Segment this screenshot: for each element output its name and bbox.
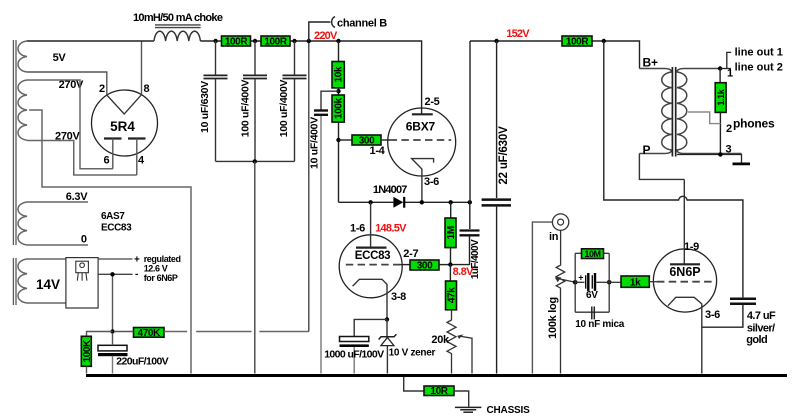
node 10k feed <box>336 39 340 43</box>
svg-text:-: - <box>135 269 138 280</box>
6N6P plate lead <box>683 179 685 264</box>
svg-text:phones: phones <box>733 117 775 131</box>
wire 10R to chassis ground <box>454 391 469 407</box>
node 100R output junction <box>602 39 606 43</box>
output tube 6N6P envelope <box>653 249 716 312</box>
node channel B tap <box>307 39 311 43</box>
svg-text:CHASSIS: CHASSIS <box>487 405 531 416</box>
wire jack sleeve to ground bus <box>532 222 552 373</box>
node filter bus center <box>253 159 257 163</box>
resistor 1k <box>621 276 649 287</box>
input jack inner circle <box>558 219 564 225</box>
svg-text:1.1k: 1.1k <box>716 88 726 105</box>
svg-text:ECC83: ECC83 <box>355 250 391 262</box>
node cap2 tap <box>253 39 257 43</box>
svg-text:152V: 152V <box>506 28 530 40</box>
resistor 47k top lead <box>449 265 451 281</box>
capacitor 10uF/400V bottom lead to bus <box>320 116 322 374</box>
wire riser x=309 from rail junction down to 470K wire <box>308 41 310 332</box>
svg-text:1-6: 1-6 <box>350 223 365 235</box>
resistor 1M <box>445 218 456 248</box>
capacitor 1uF/400V bottom lead <box>451 236 470 264</box>
svg-text:8.8V: 8.8V <box>453 266 474 278</box>
svg-text:100k log: 100k log <box>547 297 559 339</box>
svg-text:100 uF/400V: 100 uF/400V <box>278 80 290 138</box>
resistor 47k <box>446 281 457 310</box>
connector arc channel B <box>332 17 335 28</box>
wire phones tap from secondary <box>688 112 720 124</box>
svg-text:channel B: channel B <box>337 18 387 30</box>
svg-text:+: + <box>578 273 583 283</box>
wire 6.3V top lead <box>27 201 88 203</box>
wire 470K right lead with crossing gaps to 220V rail riser <box>164 331 187 333</box>
svg-text:1k: 1k <box>630 278 641 289</box>
ECC83 plate lead <box>370 202 372 247</box>
capacitor C2 bottom lead <box>254 79 256 162</box>
wire 10k column from rail <box>338 41 340 62</box>
zener diode bar with ticks <box>379 334 397 339</box>
power transformer T1 core (upper) <box>13 40 16 245</box>
wire regulator + output stub <box>98 258 132 260</box>
capacitor 1000uF bottom lead <box>353 347 355 374</box>
6N6P plate bar <box>670 263 700 265</box>
ECC83 cathode <box>353 279 387 319</box>
rectifier tube 5R4 envelope <box>92 90 158 156</box>
zener diode 10V lead <box>386 319 388 336</box>
potentiometer 20k body <box>447 310 456 374</box>
choke L1 10mH/50mA winding <box>154 31 200 41</box>
regulator U1 TO-220 symbol <box>76 261 89 281</box>
capacitor 1000uF/100V top plate <box>340 337 369 342</box>
wire filter cap bottom bus <box>216 160 295 162</box>
svg-text:regulated: regulated <box>144 254 181 264</box>
wire battery node to 1k <box>609 281 621 283</box>
node rail riser junction <box>468 200 472 204</box>
svg-text:6AS7: 6AS7 <box>101 211 125 222</box>
wire 5V bottom lead to pin 2 <box>27 72 107 95</box>
resistor 100K <box>81 336 91 366</box>
wire 300 to 6BX7 grid <box>381 139 390 141</box>
capacitor C3 bottom lead <box>294 79 296 162</box>
resistor 1.1k top lead <box>719 69 721 83</box>
resistor 10R <box>424 386 454 396</box>
wire regulator - output stub <box>98 273 132 275</box>
resistor 100R first <box>222 36 251 46</box>
capacitor C1 bottom lead <box>215 79 217 162</box>
svg-text:220uF/100V: 220uF/100V <box>116 356 168 368</box>
svg-text:5R4: 5R4 <box>110 119 135 134</box>
svg-text:in: in <box>549 231 559 243</box>
resistor 100R third <box>562 36 592 46</box>
winding 5V (T1 secondary) <box>18 41 27 72</box>
power transformer T1 core (lower 14V section) <box>13 258 16 305</box>
wire junction to 300 ohm grid stopper <box>339 139 353 141</box>
potentiometer 100k log body <box>556 230 565 373</box>
wire bus tap to 10R <box>404 375 424 391</box>
capacitor C2 100uF/400V lead <box>254 41 256 75</box>
svg-text:+: + <box>134 255 140 266</box>
capacitor 10nF mica plates <box>591 307 593 320</box>
svg-text:10mH/50 mA choke: 10mH/50 mA choke <box>133 12 223 24</box>
svg-text:5V: 5V <box>53 52 67 64</box>
wire RC network frame right <box>608 253 610 312</box>
svg-text:10 uF/400V: 10 uF/400V <box>309 117 321 169</box>
svg-text:100K: 100K <box>82 339 93 362</box>
capacitor 1000uF/100V bottom plate <box>340 344 369 347</box>
wire primary bottom P lead elbow to 6N6P plate <box>639 154 684 180</box>
wire RC network frame left <box>574 253 576 312</box>
wire 220uF leads <box>112 333 114 345</box>
resistor 1M bottom lead <box>450 248 452 265</box>
svg-text:gold: gold <box>746 334 767 346</box>
5R4 filament V <box>107 95 142 114</box>
capacitor 1uF/400V top lead <box>469 202 471 229</box>
power tube 6BX7 envelope <box>388 108 456 176</box>
capacitor C2 plates <box>243 74 267 76</box>
wire 300 ohm to 8.8V node <box>439 264 451 266</box>
capacitor 1uF/400V plates <box>460 229 480 231</box>
svg-text:10 nF mica: 10 nF mica <box>575 319 624 330</box>
resistor 100k <box>332 95 344 122</box>
ground bus (thick) <box>86 374 787 377</box>
svg-text:2-7: 2-7 <box>403 248 418 260</box>
svg-text:1000 uF/100V: 1000 uF/100V <box>324 349 384 361</box>
svg-text:100R: 100R <box>264 37 287 48</box>
output transformer T2 secondary winding <box>677 69 742 154</box>
svg-text:20k: 20k <box>431 334 450 346</box>
wire 10M row <box>575 252 581 254</box>
svg-text:6V: 6V <box>586 290 598 301</box>
ECC83 plate bar <box>356 247 387 249</box>
svg-text:B+: B+ <box>643 56 658 70</box>
svg-text:6N6P: 6N6P <box>669 265 700 279</box>
5R4 plate leads pins 6 and 4 <box>112 139 114 169</box>
wire HV center tap to ground bus <box>29 110 191 374</box>
capacitor 10uF/400V plates <box>314 109 328 111</box>
svg-text:10R: 10R <box>430 386 448 397</box>
svg-text:1N4007: 1N4007 <box>373 184 407 196</box>
wire regulator minus down to 470K node <box>112 274 114 331</box>
6BX7 grid dashed <box>390 139 452 141</box>
output transformer T2 primary winding <box>639 69 671 154</box>
winding 14V (T1 secondary) <box>18 259 27 303</box>
node pin 3 junction <box>718 152 722 156</box>
potentiometer 100k wiper arrow <box>559 279 575 283</box>
winding 6.3V heater (T1 secondary) <box>18 202 27 245</box>
svg-text:220V: 220V <box>314 30 338 42</box>
wire rail segment 2 with B+ corner <box>470 41 640 69</box>
wire rail choke to 6BX7 plate drop <box>200 41 421 114</box>
capacitor C1 10uF/630V lead <box>215 41 217 75</box>
svg-text:100k: 100k <box>334 97 345 118</box>
node 300 ohm junction <box>336 138 340 142</box>
svg-text:P: P <box>643 143 651 157</box>
node ECC83 plate junction <box>368 200 372 204</box>
wire between 10k and 100k <box>338 88 340 95</box>
regulator U1 box <box>66 258 98 308</box>
svg-text:47k: 47k <box>447 287 458 303</box>
capacitor 4.7uF plates <box>730 298 756 301</box>
capacitor 22uF/630V top lead <box>496 41 498 198</box>
wire diode row <box>339 201 394 203</box>
node 1M junction <box>449 200 453 204</box>
5R4 plate bars <box>104 137 122 139</box>
6N6P cathode <box>668 297 702 373</box>
capacitor 22uF/630V bottom lead to bus <box>496 207 498 374</box>
svg-text:6BX7: 6BX7 <box>406 120 436 134</box>
node 470K junction <box>110 329 114 333</box>
svg-text:3-6: 3-6 <box>705 309 720 321</box>
node 8.8V junction <box>448 262 452 266</box>
node battery right junction <box>607 280 612 285</box>
wire ECC83 grid to 300 ohm <box>400 264 410 266</box>
svg-text:4.7 uF: 4.7 uF <box>747 310 776 322</box>
wire riser from rail to diode row <box>469 41 471 202</box>
capacitor C3 100uF/400V lead <box>294 41 296 75</box>
battery 6V plates <box>585 275 587 288</box>
svg-text:for 6N6P: for 6N6P <box>144 273 178 283</box>
ground symbol at transformer <box>733 163 751 166</box>
wire channel B tap <box>309 22 331 41</box>
capacitor 22uF/630V plates <box>482 198 511 201</box>
node choke output <box>213 39 217 43</box>
6N6P grid dashed <box>657 281 713 283</box>
svg-text:14V: 14V <box>36 277 60 292</box>
svg-text:silver/: silver/ <box>747 323 775 335</box>
diode D1 1N4007 triangle <box>393 197 403 208</box>
wire 100R junction riser down and across to 4.7uF with hop <box>604 41 743 297</box>
svg-text:10k: 10k <box>334 66 345 82</box>
resistor 470K <box>134 328 165 338</box>
svg-text:1-9: 1-9 <box>684 241 699 253</box>
wire battery stubs <box>575 281 584 283</box>
wire 100K bottom lead to bus <box>86 366 88 373</box>
wire 270V upper lead to 5R4 plate pin 6 <box>27 80 113 169</box>
zener bottom lead <box>386 346 388 374</box>
node wiper junction <box>573 280 578 285</box>
svg-text:2: 2 <box>726 123 732 135</box>
node 22uF tap <box>494 39 498 43</box>
capacitor 4.7uF bottom lead to cathode <box>702 305 743 327</box>
node ECC83 cathode junction <box>385 317 389 321</box>
resistor 300 (6BX7 grid) <box>352 135 381 145</box>
svg-text:10 uF/630V: 10 uF/630V <box>199 81 211 133</box>
wire 470K left lead <box>114 331 134 333</box>
node 10k-100k junction <box>336 89 340 93</box>
node secondary top junction <box>718 66 722 70</box>
wire 6.3V bottom lead (0V) <box>27 244 88 246</box>
svg-text:3-8: 3-8 <box>391 291 406 303</box>
wire 270V lower lead to 5R4 plate pin 4 <box>27 141 137 176</box>
node 6BX7 cathode junction <box>420 200 424 204</box>
svg-text:12.6 V: 12.6 V <box>144 264 168 274</box>
svg-text:ECC83: ECC83 <box>101 223 132 234</box>
capacitor 220uF/100V top plate <box>98 345 127 351</box>
svg-text:1: 1 <box>727 68 733 80</box>
wire 1k to 6N6P grid <box>649 281 657 283</box>
ECC83 grid dashed <box>346 264 400 266</box>
resistor 100R second <box>261 36 290 46</box>
wire main B+ rail from 5V winding to 6BX7 plate corner <box>27 40 154 42</box>
output transformer T2 core <box>671 67 673 157</box>
wire 14V bottom lead to regulator <box>27 302 66 304</box>
wire 10nF row <box>575 311 609 313</box>
svg-text:8: 8 <box>144 83 150 95</box>
svg-text:1-4: 1-4 <box>370 145 386 157</box>
ground symbol chassis <box>455 406 482 408</box>
wire 100k to 300 junction and down to diode row <box>338 122 340 202</box>
choke L1 core lines <box>155 24 201 26</box>
capacitor C3 plates <box>283 74 307 76</box>
svg-text:2: 2 <box>99 83 105 95</box>
node regulator minus junction <box>110 272 114 276</box>
resistor 1M top lead <box>450 202 452 218</box>
svg-text:0: 0 <box>81 234 87 246</box>
svg-text:1M: 1M <box>446 226 457 239</box>
svg-text:100R: 100R <box>225 37 248 48</box>
svg-text:3-6: 3-6 <box>424 176 439 188</box>
svg-text:22 uF/630V: 22 uF/630V <box>498 126 510 185</box>
svg-text:3: 3 <box>726 144 732 156</box>
svg-text:148.5V: 148.5V <box>375 223 407 235</box>
svg-text:6.3V: 6.3V <box>66 191 88 203</box>
resistor 1.1k bottom lead <box>719 112 721 154</box>
capacitor C1 plates <box>204 74 228 76</box>
svg-text:line out 2: line out 2 <box>735 62 783 74</box>
svg-text:2-5: 2-5 <box>425 96 440 108</box>
svg-text:470K: 470K <box>138 328 161 339</box>
6BX7 cathode <box>412 159 434 203</box>
resistor 300 (ECC83 grid) <box>410 260 439 270</box>
wire cathode node to 1000uF <box>354 319 387 336</box>
6BX7 plate bar <box>412 113 433 115</box>
driver tube ECC83 envelope <box>339 235 402 298</box>
wire junction to 10uF/400V cap <box>321 91 339 110</box>
resistor 10k <box>332 62 344 88</box>
wire secondary bottom to ground <box>677 155 742 164</box>
svg-text:6: 6 <box>104 155 110 167</box>
svg-text:line out 1: line out 1 <box>735 47 783 59</box>
diode D1 cathode bar <box>403 197 405 208</box>
input jack outer circle <box>552 214 568 230</box>
resistor 10M <box>582 249 604 259</box>
svg-text:100R: 100R <box>566 37 589 48</box>
wire node to 100K resistor <box>87 332 113 337</box>
zener diode triangle <box>381 338 394 346</box>
wire pin 8 drop from rail <box>141 41 143 95</box>
svg-text:300: 300 <box>417 261 433 272</box>
winding 270V-0-270V HV (T1 secondary) <box>18 80 27 140</box>
node cap3 tap <box>292 39 296 43</box>
wire filter bus down to ground bus <box>254 161 256 373</box>
wire 14V top lead to regulator <box>27 258 66 260</box>
wire line out taps <box>720 68 731 70</box>
potentiometer 20k wiper arrow <box>461 336 472 373</box>
svg-text:10M: 10M <box>584 249 600 259</box>
capacitor 220uF/100V bottom plate <box>98 353 128 356</box>
svg-text:10 V zener: 10 V zener <box>389 348 436 359</box>
svg-text:100 uF/400V: 100 uF/400V <box>239 80 251 138</box>
resistor 1.1k <box>715 83 726 113</box>
